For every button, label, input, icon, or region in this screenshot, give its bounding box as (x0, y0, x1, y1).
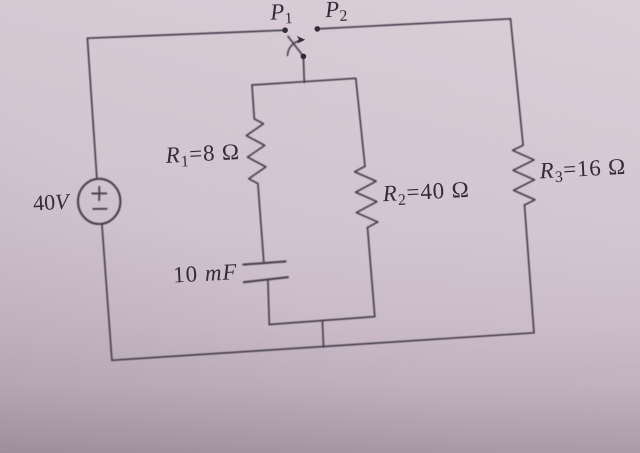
svg-text:40V: 40V (32, 189, 71, 216)
svg-text:10 mF: 10 mF (172, 259, 238, 287)
